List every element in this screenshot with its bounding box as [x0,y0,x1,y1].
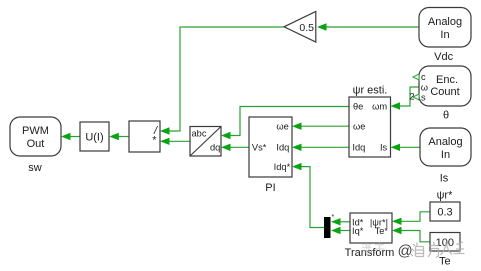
label PI [265,182,275,194]
wire abc/dq output to divider bottom input [160,138,190,145]
svg-text:@: @ [398,243,413,260]
svg-text:ψr esti.: ψr esti. [353,85,388,97]
wire theta-e from psi-r estimator to abc/dq top input [221,107,349,140]
svg-text:Analog: Analog [428,136,462,148]
constant 0.3 [430,202,460,221]
block Analog In Vdc [419,8,471,48]
wire Transform Id* output to mux [331,218,350,225]
svg-text:dq: dq [210,143,220,153]
svg-text:Count: Count [430,86,459,98]
svg-text:abc: abc [192,128,207,138]
block psi-r estimator [349,97,391,157]
svg-text:0.5: 0.5 [299,22,314,34]
svg-text:c: c [421,72,426,82]
wire constant 100 to Transform Te* input [392,227,430,242]
label sw [28,162,42,174]
wire Transform Iq* output to mux [331,227,350,234]
svg-text:*: * [332,214,335,221]
svg-text:2: 2 [410,92,415,102]
svg-text:PI: PI [265,182,275,194]
svg-text:Iq*: Iq* [352,226,364,236]
wire divider output to U(I) [109,133,129,140]
label bus width 2 [410,92,415,102]
block U(I) modulator [80,122,109,151]
watermark zhihu [362,242,465,260]
svg-text:ω: ω [421,82,428,92]
wire Is AnalogIn to psi-r estimator Is [391,144,421,151]
block abc/dq transformation [190,127,221,157]
svg-text:U(I): U(I) [85,132,103,144]
svg-text:Idq: Idq [352,143,365,153]
mux Idq* [324,214,335,238]
svg-text:*: * [152,135,157,147]
port marker c unconnected [413,74,419,80]
svg-text:ωe: ωe [353,121,365,131]
svg-text:ψr*: ψr* [437,190,454,202]
svg-text:Is: Is [380,143,388,153]
svg-text:In: In [440,29,449,41]
svg-text:Enc.: Enc. [436,74,458,86]
svg-text:sw: sw [28,162,42,174]
svg-text:Vdc: Vdc [434,51,453,63]
wire U(I) to PWM Out [61,133,80,140]
svg-text:Te*: Te* [375,226,389,236]
svg-text:ωm: ωm [372,102,387,112]
gain 0.5 [284,12,316,43]
wire constant 0.3 to Transform psi-r* input [392,212,430,225]
block Analog In Is [420,128,471,166]
block Transform [350,213,392,243]
svg-text:Is: Is [440,173,449,185]
block divider (/ *) [129,121,160,152]
svg-text:ωe: ωe [276,121,288,131]
svg-text:Out: Out [27,138,45,150]
wire gain output to divider top input [160,27,284,135]
svg-text:s: s [421,92,426,102]
svg-text:Te: Te [439,256,451,268]
block PI controller [249,117,292,177]
label Vdc [434,51,453,63]
port marker s unconnected [413,94,419,100]
block PWM Out [10,117,61,156]
label theta [443,110,449,122]
svg-text:0.3: 0.3 [437,207,452,219]
svg-text:PWM: PWM [22,125,49,137]
wire mux output to PI Idq* input [292,163,324,228]
label psi-r* [437,190,454,202]
svg-text:Analog: Analog [428,16,462,28]
wire omega-e from psi-r estimator to PI [292,123,349,130]
svg-text:Idq: Idq [276,143,289,153]
wire Enc Count omega to psi-r estimator omega-m [391,87,420,110]
block Enc. Count [419,66,471,106]
label Te [439,256,451,268]
wire Vdc AnalogIn to gain [317,23,419,30]
wire Idq from psi-r estimator to PI [292,144,349,151]
svg-text:Vs*: Vs* [252,143,267,153]
svg-text:θe: θe [353,102,363,112]
label Is [440,173,449,185]
svg-text:Idq*: Idq* [274,162,291,172]
wire Vs* from PI to abc/dq bottom input [221,144,249,151]
label psi-r esti. [353,85,388,97]
svg-text:θ: θ [443,110,449,122]
constant 100 [430,233,460,252]
label Transform [345,247,395,259]
svg-text:In: In [441,149,450,161]
